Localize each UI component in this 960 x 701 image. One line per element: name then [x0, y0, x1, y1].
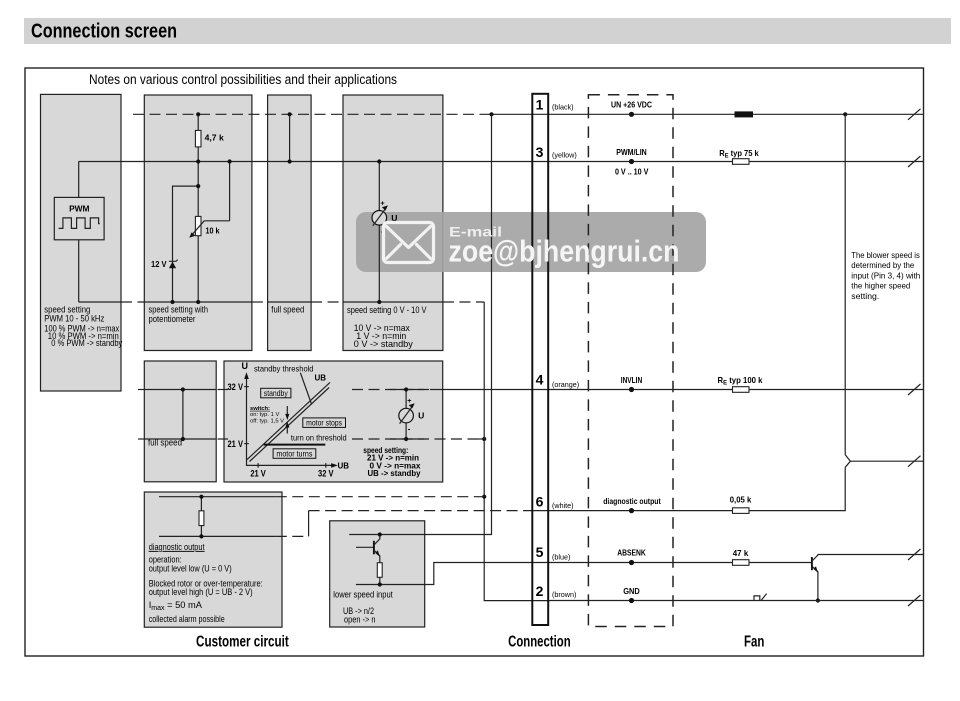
svg-text:0 % PWM -> standby: 0 % PWM -> standby [51, 338, 122, 348]
svg-text:Notes on various control possi: Notes on various control possibilities a… [89, 72, 397, 87]
node PWM/LIN [629, 159, 634, 164]
resistor RE typ 100k [733, 387, 750, 393]
row2 lower line y439 [144, 438, 215, 440]
svg-text:motor turns: motor turns [276, 448, 312, 458]
x tick 21V [257, 463, 259, 468]
UB tail [327, 382, 331, 385]
wire pin4 left [144, 389, 215, 391]
svg-text:10 k: 10 k [206, 227, 220, 236]
svg-text:(blue): (blue) [552, 552, 570, 561]
svg-text:standby: standby [264, 388, 289, 398]
node ABSENK [629, 560, 634, 565]
svg-text:47 k: 47 k [733, 549, 749, 558]
svg-text:0 V -> standby: 0 V -> standby [354, 339, 413, 349]
wire pin2 right [550, 600, 924, 602]
svg-text:U: U [418, 411, 424, 421]
svg-text:5: 5 [536, 544, 544, 560]
svg-text:21 V: 21 V [250, 469, 266, 479]
node UN+26VDC [629, 112, 634, 117]
svg-text:0 V .. 10 V: 0 V .. 10 V [615, 167, 649, 176]
svg-text:Fan: Fan [744, 633, 764, 650]
svg-text:on: typ. 1 V: on: typ. 1 V [250, 412, 279, 418]
vertical A (+26 riser) [349, 114, 491, 534]
voltmeter U graph [399, 408, 414, 423]
svg-text:GND: GND [623, 587, 640, 596]
svg-text:UN +26 VDC: UN +26 VDC [611, 101, 652, 110]
thick level line [264, 444, 326, 446]
svg-text:4,7 k: 4,7 k [205, 134, 225, 143]
svg-text:U: U [242, 361, 249, 371]
node INVLIN [629, 387, 634, 392]
resistor 47k [733, 560, 750, 566]
svg-text:full speed: full speed [271, 304, 304, 314]
svg-text:input (Pin 3, 4) with: input (Pin 3, 4) with [851, 271, 920, 280]
resistor 0,05k [733, 508, 750, 514]
svg-text:full speed: full speed [148, 438, 182, 448]
row2 fullspeed vertical [182, 390, 184, 440]
box: lower speed input [330, 521, 425, 627]
box: full speed (row2) [144, 361, 216, 482]
svg-text:2: 2 [536, 583, 544, 599]
svg-text:the higher speed: the higher speed [851, 282, 910, 291]
y tick 21V [244, 443, 249, 445]
slash wire3 [908, 156, 921, 167]
wire pin6 left dashed [309, 510, 532, 512]
motor stops boxed [303, 418, 346, 428]
motor turns boxed [273, 449, 316, 459]
main diagram frame [25, 68, 924, 656]
lower box transistor Q1 [356, 546, 374, 548]
box1 wire to rail [78, 240, 80, 302]
diagonal double line [247, 386, 327, 460]
svg-text:ABSENK: ABSENK [617, 549, 646, 558]
node box2 top [196, 112, 200, 116]
svg-text:collected alarm possible: collected alarm possible [149, 614, 225, 624]
svg-text:zoe@bjhengrui.cn: zoe@bjhengrui.cn [449, 234, 680, 269]
svg-text:INVLIN: INVLIN [621, 376, 643, 385]
resistor (choke) on wire1 [735, 111, 754, 117]
callout line standby threshold [300, 373, 311, 404]
slash connector line [908, 456, 921, 467]
wire pin5 right [550, 562, 811, 564]
svg-text:Connection screen: Connection screen [31, 20, 177, 43]
wire6 step up [308, 511, 310, 537]
svg-text:setting.: setting. [851, 292, 879, 301]
node wire1-fan branch [843, 112, 847, 116]
node box2-wire3 [196, 159, 200, 163]
resistor RE typ 75k [733, 159, 750, 165]
svg-text:3: 3 [536, 144, 544, 160]
fan +26 drop [844, 114, 846, 454]
svg-text:Customer circuit: Customer circuit [196, 633, 289, 650]
lower box resistor [377, 563, 382, 578]
y tick 32V [244, 386, 249, 388]
svg-text:output level high (U = UB - 2: output level high (U = UB - 2 V) [149, 587, 253, 597]
pot wiper riser [229, 162, 231, 221]
svg-text:UB: UB [315, 373, 327, 382]
svg-text:off: typ. 1,5 V: off: typ. 1,5 V [250, 418, 284, 424]
pot wiper [192, 221, 230, 236]
node GND [629, 598, 634, 603]
potentiometer 10k body [195, 216, 201, 235]
node rail-439 [482, 437, 486, 441]
watermark backdrop [356, 212, 706, 272]
svg-text:diagnostic output: diagnostic output [603, 497, 661, 506]
svg-text:-: - [408, 425, 411, 434]
resistor diag [199, 511, 204, 526]
node box2-rail [196, 300, 200, 304]
box: speed setting with potentiometer [144, 95, 252, 351]
svg-text:The blower speed is: The blower speed is [851, 251, 920, 260]
node zener-rail [170, 300, 174, 304]
wire pin5 left [356, 563, 550, 585]
wire pin1 left solid [492, 113, 924, 115]
Q2 emitter arrow [813, 566, 818, 572]
svg-text:PWM/LIN: PWM/LIN [616, 148, 647, 157]
y axis [247, 378, 333, 466]
connection dashed box [588, 95, 673, 627]
svg-text:UB -> standby: UB -> standby [368, 468, 421, 478]
svg-text:(black): (black) [552, 103, 574, 112]
zener diode 12V [169, 262, 176, 269]
wire pin1 left dashed [133, 113, 492, 115]
svg-text:Connection: Connection [508, 633, 571, 650]
slash collector line [908, 549, 921, 560]
svg-text:(yellow): (yellow) [552, 151, 577, 160]
box: diagnostic output [144, 492, 282, 627]
svg-text:determined by the: determined by the [851, 261, 915, 270]
diag box bottom wire [159, 535, 276, 537]
node branch [196, 184, 200, 188]
wire pin3 [79, 161, 924, 163]
slash wire4 [908, 384, 921, 395]
box: speed setting PWM [41, 94, 122, 391]
standby boxed [261, 388, 291, 398]
svg-text:motor stops: motor stops [306, 417, 342, 427]
svg-text:(orange): (orange) [552, 380, 579, 389]
transistor Q2 emitter [813, 567, 818, 601]
node wire1-A junction [489, 112, 493, 116]
title bar [24, 18, 951, 44]
thermal contact symbol on GND wire [753, 594, 766, 601]
watermark envelope [384, 223, 434, 263]
node Q2-gnd [816, 598, 820, 602]
graph voltmeter vertical [405, 390, 407, 440]
svg-text:+: + [381, 200, 385, 207]
svg-text:speed setting 0 V - 10 V: speed setting 0 V - 10 V [347, 305, 427, 315]
connector chevron [845, 455, 850, 468]
threshold arrows [286, 406, 288, 417]
svg-text:+: + [407, 398, 411, 405]
box1 wire to pin3 [78, 162, 80, 198]
svg-text:0,05 k: 0,05 k [730, 495, 752, 504]
slash wire1 [908, 109, 921, 120]
node pot-wire3 [228, 159, 232, 163]
diag box top wire [159, 496, 276, 498]
svg-text:output level low (U = 0 V): output level low (U = 0 V) [149, 564, 232, 574]
wire pin6 right [550, 467, 845, 510]
svg-text:12 V: 12 V [151, 260, 167, 269]
vertical B (gnd riser) [484, 302, 550, 601]
svg-text:diagnostic output: diagnostic output [149, 542, 205, 552]
node diag bottom [199, 534, 203, 538]
svg-text:speed setting with: speed setting with [149, 304, 209, 314]
connector out line [850, 460, 923, 462]
svg-text:switch:: switch: [250, 406, 270, 412]
transistor Q2 collector [813, 555, 924, 561]
box: full speed (row1) [268, 95, 312, 351]
diag resistor leads [200, 497, 202, 511]
box4 vertical [378, 162, 380, 303]
node diag top [199, 495, 203, 499]
svg-text:6: 6 [536, 493, 544, 509]
svg-text:turn on threshold: turn on threshold [291, 433, 347, 443]
svg-text:4: 4 [536, 371, 544, 387]
node diagnostic output [629, 508, 634, 513]
x axis arrowhead [331, 463, 338, 468]
pin column box [532, 94, 548, 625]
PWM square wave [59, 218, 100, 229]
svg-text:1: 1 [536, 96, 544, 112]
svg-text:open -> n: open -> n [344, 615, 376, 625]
svg-text:UB: UB [338, 461, 350, 470]
svg-text:PWM: PWM [69, 204, 89, 214]
box: speed setting 0V-10V [343, 95, 443, 351]
svg-text:potentiometer: potentiometer [149, 314, 196, 324]
svg-text:lower speed input: lower speed input [333, 590, 393, 600]
svg-text:(white): (white) [552, 501, 574, 510]
zener branch [173, 186, 199, 302]
svg-text:(brown): (brown) [552, 590, 576, 599]
box: graph box [224, 361, 443, 482]
slash gnd line [908, 595, 921, 606]
box2 main vertical [197, 114, 199, 302]
x tick 32V [325, 463, 327, 468]
svg-text:standby threshold: standby threshold [254, 364, 314, 374]
svg-text:21 V: 21 V [228, 439, 244, 449]
voltmeter U box4 [372, 211, 387, 226]
svg-text:PWM 10 - 50 kHz: PWM 10 - 50 kHz [44, 313, 104, 323]
transistor Q2 base bar [811, 557, 813, 570]
node diagtop-B [482, 495, 486, 499]
resistor 4,7k [195, 130, 201, 147]
pot wiper arrowhead [189, 232, 195, 237]
PWM generator symbol [54, 197, 104, 239]
svg-text:32 V: 32 V [318, 469, 334, 479]
ground rail y302 [79, 301, 121, 303]
y axis arrowhead [244, 372, 249, 379]
box3 vertical link [289, 114, 291, 161]
svg-text:32 V: 32 V [228, 382, 244, 392]
